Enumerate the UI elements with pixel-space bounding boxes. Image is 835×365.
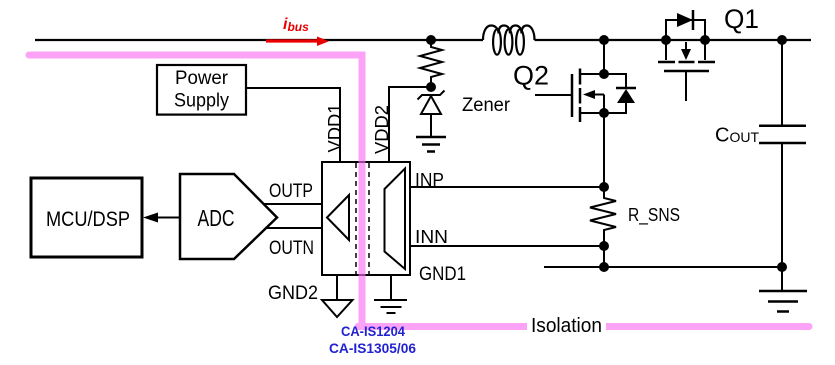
svg-text:VDD2: VDD2 [372, 105, 392, 154]
svg-text:Q1: Q1 [724, 4, 759, 34]
svg-text:CA-IS1204: CA-IS1204 [341, 324, 405, 339]
svg-text:ibus: ibus [283, 16, 309, 34]
svg-text:GND2: GND2 [268, 283, 318, 304]
svg-text:GND1: GND1 [419, 264, 466, 285]
svg-text:CA-IS1305/06: CA-IS1305/06 [329, 341, 416, 356]
svg-text:Supply: Supply [174, 91, 229, 112]
svg-text:Isolation: Isolation [531, 315, 602, 337]
svg-text:Zener: Zener [462, 95, 511, 116]
svg-text:OUTP: OUTP [269, 181, 313, 202]
svg-text:INP: INP [415, 170, 444, 190]
svg-text:INN: INN [415, 227, 448, 247]
svg-text:VDD1: VDD1 [325, 104, 345, 153]
svg-text:Power: Power [175, 68, 229, 89]
svg-text:R_SNS: R_SNS [628, 205, 680, 226]
svg-text:OUTN: OUTN [269, 238, 314, 259]
svg-text:COUT: COUT [715, 124, 759, 146]
svg-text:ADC: ADC [198, 205, 235, 231]
svg-text:Q2: Q2 [513, 61, 549, 91]
svg-text:MCU/DSP: MCU/DSP [46, 208, 130, 231]
